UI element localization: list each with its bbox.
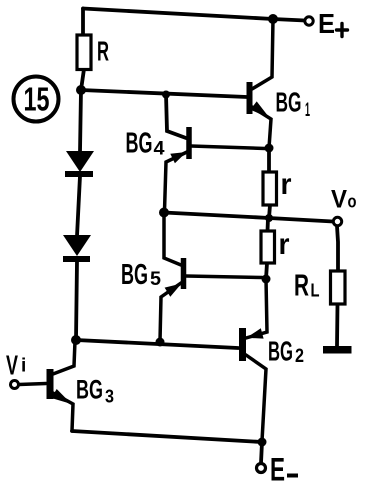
badge 15 bbox=[14, 77, 59, 122]
junction R bottom node bbox=[76, 85, 86, 95]
svg-text:i: i bbox=[21, 356, 26, 377]
terminal Vo bbox=[333, 217, 341, 225]
wire top rail bbox=[83, 9, 305, 21]
wire r2 top bbox=[266, 218, 270, 231]
svg-text:2: 2 bbox=[295, 346, 304, 367]
wire E- stub bbox=[261, 442, 262, 463]
wire RL bottom bbox=[335, 304, 339, 346]
wire base line to BG1 bbox=[81, 90, 247, 97]
junction Vo-line left node bbox=[159, 208, 169, 218]
svg-text:BG: BG bbox=[276, 87, 302, 118]
svg-text:15: 15 bbox=[24, 81, 50, 118]
svg-text:BG: BG bbox=[268, 336, 293, 367]
wire r2 bottom to node B bbox=[266, 263, 267, 279]
junction node A bbox=[265, 144, 274, 153]
junction bottom rail E- node bbox=[258, 438, 267, 447]
wire R bottom lead bbox=[81, 69, 84, 90]
svg-text:L: L bbox=[311, 281, 320, 301]
terminal E- bbox=[257, 464, 266, 473]
terminal Vi bbox=[11, 381, 19, 389]
wire r1 bottom bbox=[269, 205, 270, 218]
transistor BG4 bbox=[165, 127, 266, 211]
ground bbox=[323, 346, 352, 354]
svg-text:5: 5 bbox=[150, 269, 161, 290]
wire diode chain top bbox=[80, 90, 81, 152]
svg-text:R: R bbox=[294, 268, 309, 303]
wire diodes to BG3 collector node bbox=[76, 261, 77, 340]
transistor BG3 bbox=[19, 341, 75, 431]
svg-text:E: E bbox=[270, 452, 285, 488]
svg-text:BG: BG bbox=[121, 259, 148, 291]
junction node B bbox=[262, 275, 271, 284]
wire BG2 base line bbox=[76, 340, 238, 348]
resistor R bbox=[77, 35, 91, 70]
svg-text:4: 4 bbox=[154, 139, 165, 160]
transistor BG1 bbox=[250, 19, 274, 148]
transistor BG5 bbox=[160, 213, 262, 342]
diode D1 bbox=[65, 151, 94, 177]
terminal E+ bbox=[305, 17, 313, 25]
junction BG3 collector node bbox=[71, 335, 81, 345]
resistor RL bbox=[331, 271, 346, 304]
svg-text:3: 3 bbox=[105, 387, 114, 407]
resistor r2 bbox=[261, 231, 275, 263]
wire node A to r1 bbox=[267, 148, 271, 172]
svg-text:BG: BG bbox=[76, 375, 103, 405]
svg-text:R: R bbox=[97, 36, 109, 67]
svg-text:r: r bbox=[281, 168, 292, 201]
svg-text:V: V bbox=[6, 350, 18, 381]
wire bottom rail bbox=[72, 431, 262, 442]
junction top rail bbox=[268, 14, 278, 24]
wire between diodes bbox=[77, 176, 80, 236]
diode D2 bbox=[63, 235, 91, 262]
svg-text:1: 1 bbox=[305, 100, 310, 121]
wire R top lead bbox=[81, 9, 85, 37]
junction BG4 collector tap bbox=[162, 91, 170, 99]
transistor BG2 bbox=[243, 279, 268, 441]
wire BG4 collector drop bbox=[166, 94, 186, 138]
wire Vo line bbox=[164, 213, 333, 222]
resistor r1 bbox=[263, 172, 277, 205]
svg-text:V: V bbox=[331, 186, 347, 214]
svg-text:E: E bbox=[318, 8, 335, 39]
wire Vo terminal to RL bbox=[337, 226, 338, 271]
svg-text:r: r bbox=[279, 228, 290, 261]
svg-text:BG: BG bbox=[126, 128, 153, 160]
junction r node on Vo line bbox=[265, 214, 273, 222]
svg-text:o: o bbox=[348, 192, 357, 212]
junction BG5 emitter node bbox=[156, 338, 165, 347]
